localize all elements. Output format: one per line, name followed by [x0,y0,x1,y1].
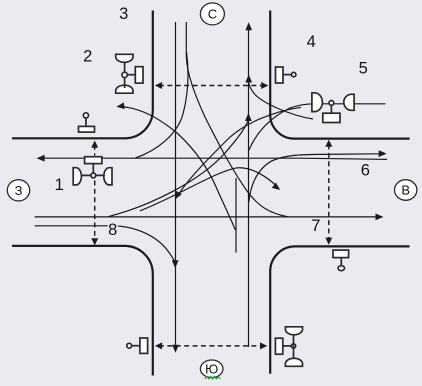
wire northbound through lane [248,26,250,347]
detector south-right hub [291,344,295,348]
arrow northbound through [245,22,252,30]
svg-text:8: 8 [108,221,117,239]
svg-text:4: 4 [307,33,316,51]
detector 1 link [81,174,105,176]
arrow eastbound through [376,214,384,221]
detector 1 right cup [104,168,112,185]
wire westbound through lane [44,158,387,159]
arrow eastbound left turn end [245,113,252,121]
wire eastbound through lane [35,216,376,218]
node Yu south circle [200,360,223,378]
traffic light south-left box [140,338,148,353]
svg-text:7: 7 [311,217,320,235]
detector 2 bottom cup [116,85,133,93]
arrow dashed east top [325,140,332,147]
svg-text:1: 1 [55,176,64,194]
detector 5 box [323,113,340,122]
detector south-right stem [293,335,295,358]
wire median strand [235,178,237,253]
wire southbound right turn to west [135,52,188,158]
arrow southbound through at south stop line [172,345,179,353]
detector 1 control box [85,157,102,164]
dashed link east approach [328,145,330,240]
svg-text:5: 5 [359,60,368,78]
arrow dashed east bottom [325,238,332,245]
arrow east slip arc end [272,183,280,191]
traffic light 4 link [283,74,292,76]
detector 5 hub [329,101,334,106]
svg-text:С: С [208,7,217,22]
wire eastbound left turn to north [108,121,248,217]
svg-text:2: 2 [83,48,92,66]
node C north circle [200,3,224,25]
detector south-right bottom cup [285,358,302,366]
svg-text:3: 3 [119,5,128,23]
svg-text:Ю: Ю [205,362,218,377]
detector 5 stem [330,105,332,113]
arrow eastbound right turn end [172,260,179,268]
svg-text:В: В [401,183,410,198]
detector 5 right cup [344,94,354,110]
detector 2 link [127,74,135,76]
detector 5 left cup [312,93,323,112]
traffic light 7 post [338,266,344,271]
node Z west circle [7,180,29,201]
arrow westbound left turn end [175,191,182,200]
wire northbound right turn to east [249,154,380,202]
arrow dashed south right [260,342,267,349]
wire northbound left turn to west [124,107,235,230]
arrow northbound left turn end [116,102,124,109]
detector south-right top cup [285,327,302,335]
road edge SE corner [270,246,409,373]
wire westbound left turn to south [180,107,302,193]
dashed link south approach [159,345,263,347]
detector 1 left cup [73,168,81,185]
arrow westbound through [37,155,45,162]
wire eastbound right turn to south [35,226,176,265]
detector 2 hub [122,72,127,77]
traffic light west (circle over box) [83,113,88,118]
traffic light south-left link [132,345,140,347]
arrow dashed north left [155,82,162,89]
arrow dashed north right [261,82,268,89]
detector south-right box [275,338,282,354]
traffic light 7 box [333,250,349,258]
detector south-right link [283,345,292,347]
wire westbound right turn to north [249,83,313,119]
road edge SW corner [12,246,153,376]
detector 2 side box [135,67,143,83]
detector 1 hub [91,173,96,178]
dashed link north approach [159,85,264,87]
arrow dashed west top [91,141,98,148]
wire southbound through lane [175,22,177,345]
detector 2 top cup [116,54,133,62]
node V east circle [395,180,417,201]
wire eastbound slip arc to east arrow [140,168,276,211]
svg-text:З: З [15,183,23,198]
arrow northbound right turn end [379,150,387,157]
road edge NW corner [12,11,153,139]
arrow dashed west bottom [91,238,98,245]
arrow westbound right turn end [245,75,252,83]
traffic light 4 box [276,67,284,83]
wire exit strand to detector 5 line [249,104,385,150]
svg-text:6: 6 [361,162,370,180]
arrow dashed south left [155,342,162,349]
traffic light south-left post [127,343,132,348]
detector 2 stem [124,62,126,88]
dashed link west approach [94,145,96,240]
traffic light 4 post [292,72,296,76]
wire southbound left turn to east [186,22,288,217]
road edge NE corner [270,11,409,139]
spellcheck squiggle under Yu [205,377,220,379]
traffic light 7 stem [340,258,342,266]
